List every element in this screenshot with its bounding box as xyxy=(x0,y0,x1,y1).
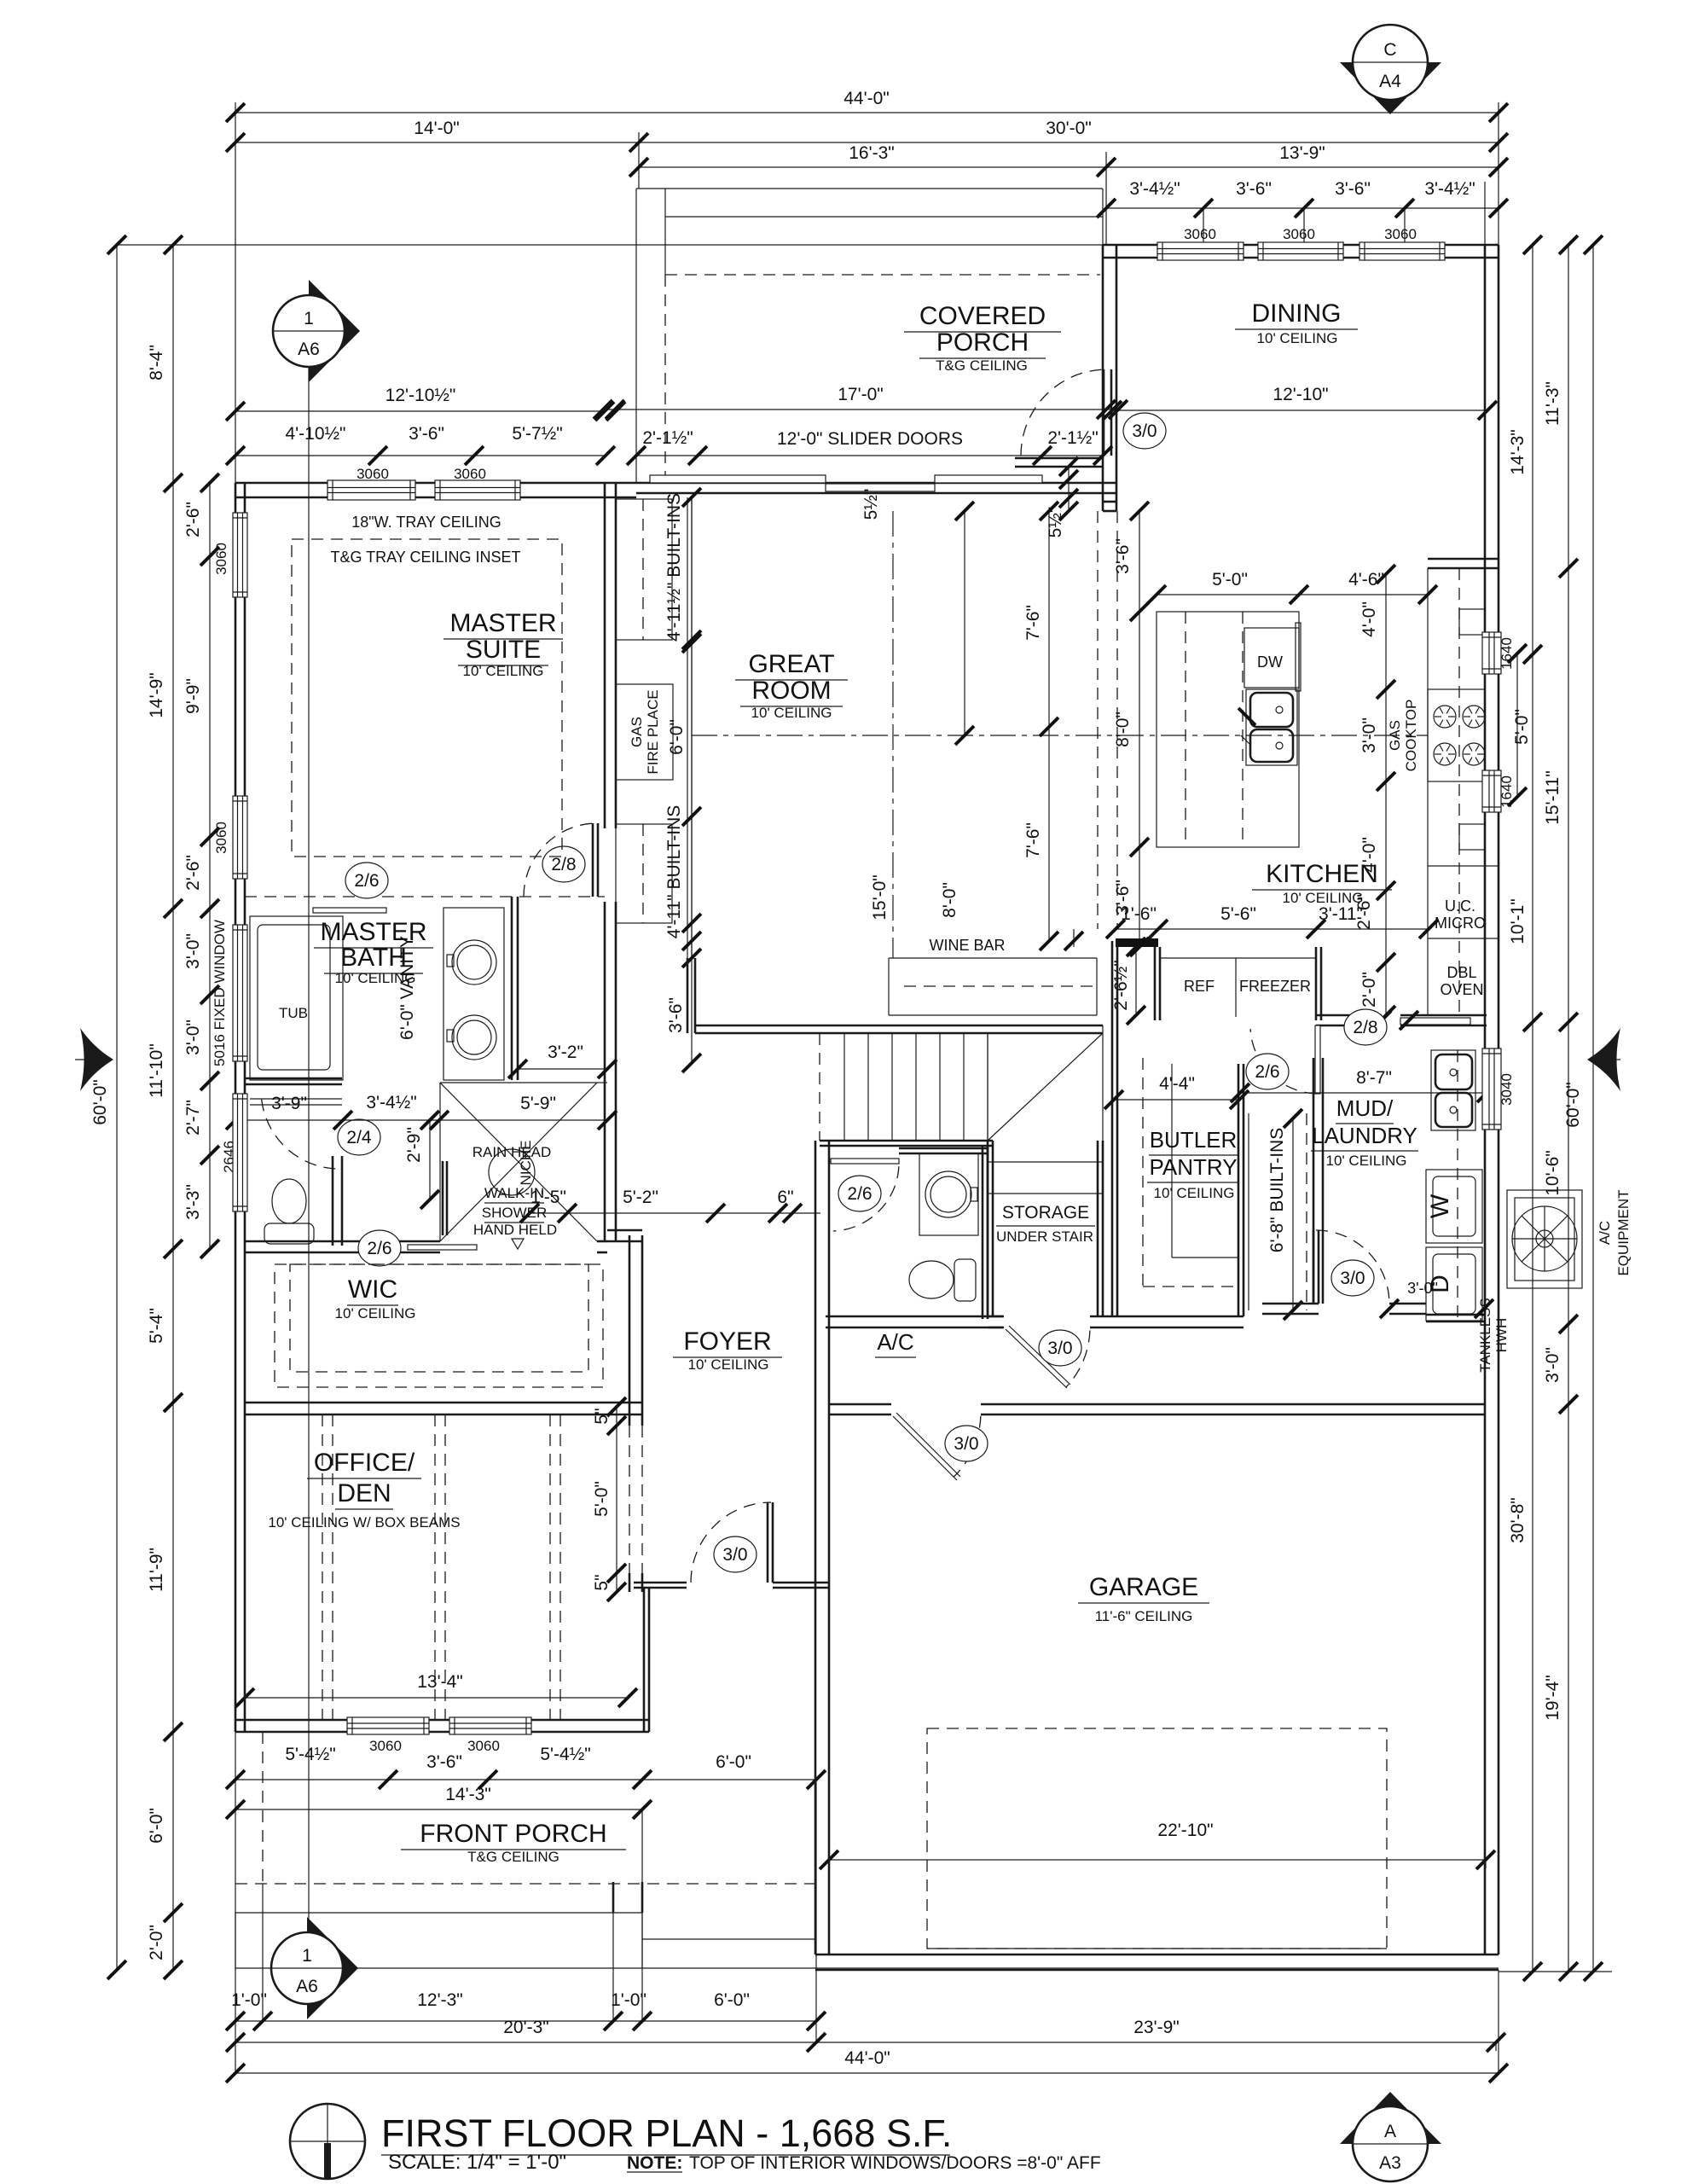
svg-text:14'-3": 14'-3" xyxy=(1508,429,1528,475)
svg-text:2'-1½": 2'-1½" xyxy=(1047,428,1098,448)
window 1640 upper xyxy=(1482,632,1501,674)
dishwasher xyxy=(1244,628,1299,688)
wall below wine bar xyxy=(687,958,695,1033)
door tag 3/0 entry xyxy=(714,1536,757,1572)
section marker 1/A6 bottom xyxy=(307,1917,358,2019)
svg-text:A6: A6 xyxy=(296,1977,318,1996)
built-ins upper xyxy=(616,499,672,640)
covered porch edge lines xyxy=(635,189,637,483)
svg-text:GAS: GAS xyxy=(629,717,645,747)
svg-text:3'-4½": 3'-4½" xyxy=(366,1093,416,1112)
svg-text:7'-6": 7'-6" xyxy=(1023,605,1043,641)
built-ins 6-8 xyxy=(1248,1113,1249,1310)
svg-text:T&G TRAY CEILING INSET: T&G TRAY CEILING INSET xyxy=(330,549,520,566)
walk-in shower xyxy=(440,1083,597,1241)
foyer east / garage west upper wall xyxy=(815,1141,829,1404)
wall under porch door xyxy=(1015,458,1103,467)
svg-text:3060: 3060 xyxy=(369,1738,402,1754)
svg-text:HWH: HWH xyxy=(1493,1318,1510,1353)
svg-text:U.C.: U.C. xyxy=(1445,897,1475,915)
svg-text:SUITE: SUITE xyxy=(466,636,541,664)
mud sink xyxy=(1431,1050,1475,1130)
svg-text:NOTE:: NOTE: xyxy=(627,2153,682,2173)
svg-text:14'-9": 14'-9" xyxy=(147,672,166,718)
svg-text:3060: 3060 xyxy=(454,466,486,482)
svg-text:2/6: 2/6 xyxy=(354,871,379,891)
svg-text:ROOM: ROOM xyxy=(751,677,831,705)
svg-text:1'-0": 1'-0" xyxy=(611,1990,646,2010)
wine bar counter xyxy=(889,957,1097,959)
svg-text:3'-6": 3'-6" xyxy=(409,424,444,444)
svg-text:5'-7½": 5'-7½" xyxy=(512,424,562,444)
svg-text:DEN: DEN xyxy=(337,1479,391,1507)
door tag 2/6 powder xyxy=(838,1176,881,1211)
gas fireplace xyxy=(616,684,673,780)
svg-text:4'-10½": 4'-10½" xyxy=(285,424,345,444)
garage north wall east part xyxy=(981,1404,1485,1414)
svg-text:UNDER STAIR: UNDER STAIR xyxy=(996,1228,1093,1245)
porch dims xyxy=(594,400,1128,419)
porch roof dashed line xyxy=(665,274,1100,276)
svg-text:30'-0": 30'-0" xyxy=(1046,119,1092,138)
svg-text:6'-8" BUILT-INS: 6'-8" BUILT-INS xyxy=(1267,1128,1287,1252)
svg-text:6'-0": 6'-0" xyxy=(147,1808,166,1844)
svg-text:PANTRY: PANTRY xyxy=(1149,1154,1237,1180)
svg-text:COVERED: COVERED xyxy=(919,302,1046,330)
pantry xyxy=(1112,941,1117,1316)
svg-text:1'-6": 1'-6" xyxy=(1121,904,1157,924)
svg-text:14'-3": 14'-3" xyxy=(445,1785,491,1804)
svg-text:4'-11" BUILT-INS: 4'-11" BUILT-INS xyxy=(664,805,684,939)
master suite top dims xyxy=(226,402,614,421)
svg-text:2'-6": 2'-6" xyxy=(183,502,203,537)
svg-text:5'-9": 5'-9" xyxy=(520,1094,556,1113)
tray ceiling xyxy=(292,539,562,857)
powder door 2/6 xyxy=(831,1159,899,1164)
svg-text:LAUNDRY: LAUNDRY xyxy=(1312,1123,1417,1148)
svg-text:RAIN HEAD: RAIN HEAD xyxy=(472,1144,552,1160)
kitchen east vertical dims xyxy=(1377,565,1395,1025)
svg-text:2/8: 2/8 xyxy=(1353,1018,1377,1037)
WIC dashed shelving xyxy=(275,1264,603,1387)
svg-text:3'-0": 3'-0" xyxy=(183,933,203,969)
svg-text:3060: 3060 xyxy=(357,466,389,482)
stair top wall xyxy=(695,1025,1103,1033)
svg-text:A/C: A/C xyxy=(877,1329,913,1355)
stair landing xyxy=(987,1033,988,1141)
svg-text:FIRST FLOOR PLAN - 1,668 S.F.: FIRST FLOOR PLAN - 1,668 S.F. xyxy=(381,2111,952,2155)
master suite 2/8 door xyxy=(593,823,598,897)
bath dims xyxy=(226,1111,617,1130)
svg-text:TOP OF INTERIOR WINDOWS/DOORS: TOP OF INTERIOR WINDOWS/DOORS =8'-0" AFF xyxy=(689,2153,1101,2173)
svg-text:1'-0": 1'-0" xyxy=(231,1990,267,2010)
entry vestibule walls xyxy=(644,1588,649,1732)
svg-text:13'-9": 13'-9" xyxy=(1279,143,1325,163)
door tag 2/4 toilet xyxy=(338,1119,380,1155)
svg-text:3'-6": 3'-6" xyxy=(1113,538,1133,574)
svg-text:3'-11": 3'-11" xyxy=(1319,904,1363,924)
svg-text:3'-6": 3'-6" xyxy=(426,1752,462,1772)
svg-text:13'-4": 13'-4" xyxy=(417,1672,463,1692)
svg-text:3'-0": 3'-0" xyxy=(1407,1280,1438,1297)
door tag 2/8 master suite xyxy=(542,846,585,882)
svg-text:T&G CEILING: T&G CEILING xyxy=(936,357,1028,374)
svg-text:SCALE: 1/4" = 1'-0": SCALE: 1/4" = 1'-0" xyxy=(388,2151,566,2174)
svg-text:10' CEILING: 10' CEILING xyxy=(463,663,544,679)
svg-text:6'-0": 6'-0" xyxy=(667,719,687,755)
svg-text:11'-9": 11'-9" xyxy=(147,1548,166,1592)
svg-text:A: A xyxy=(1384,2122,1396,2141)
svg-text:10' CEILING: 10' CEILING xyxy=(335,1305,416,1321)
svg-text:30'-8": 30'-8" xyxy=(1508,1497,1528,1543)
svg-text:3'-3": 3'-3" xyxy=(183,1184,203,1220)
svg-text:3'-6": 3'-6" xyxy=(1236,179,1272,199)
toilet room xyxy=(245,1078,342,1084)
built-ins lower xyxy=(616,824,672,923)
porch pillar wall xyxy=(613,1882,642,1913)
mud hall dims xyxy=(1104,1090,1249,1109)
master suite east wall xyxy=(605,483,616,828)
micro / oven cabinets xyxy=(1428,865,1499,867)
svg-text:2'-0": 2'-0" xyxy=(147,1925,166,1960)
wall right of vanity xyxy=(512,897,518,1080)
front porch slab xyxy=(235,1883,815,1885)
WIC/office wall xyxy=(245,1403,642,1414)
svg-text:8'-0": 8'-0" xyxy=(940,882,959,918)
svg-text:FIRE PLACE: FIRE PLACE xyxy=(645,689,661,774)
svg-text:5'-2": 5'-2" xyxy=(623,1188,658,1207)
svg-text:3'-0": 3'-0" xyxy=(183,1019,203,1055)
stairs xyxy=(819,1033,820,1141)
door tag 3/0 mud xyxy=(1331,1260,1374,1296)
svg-text:3/0: 3/0 xyxy=(1132,421,1157,441)
svg-text:10'-6": 10'-6" xyxy=(1543,1150,1562,1196)
kitchen south wall + ref/freezer xyxy=(1116,938,1158,947)
door tag 3/0 storage xyxy=(1039,1330,1081,1366)
section arrow right xyxy=(1587,1028,1620,1091)
svg-text:60'-0": 60'-0" xyxy=(1563,1082,1583,1128)
svg-text:3060: 3060 xyxy=(213,822,229,854)
svg-text:4'-0": 4'-0" xyxy=(1359,601,1379,637)
svg-text:15'-11": 15'-11" xyxy=(1543,770,1562,825)
svg-text:3060: 3060 xyxy=(1283,226,1315,242)
svg-text:OFFICE/: OFFICE/ xyxy=(314,1449,415,1477)
top dimension lines xyxy=(235,102,236,483)
corridor-garage door 3/0 xyxy=(893,1416,957,1480)
svg-text:3'-6": 3'-6" xyxy=(666,997,686,1033)
storage door 3/0 xyxy=(1006,1329,1067,1388)
door tag 2/8 kitchen hall xyxy=(1344,1009,1387,1045)
gas cooktop xyxy=(1428,689,1485,781)
svg-text:3'-0": 3'-0" xyxy=(1543,1347,1562,1383)
svg-text:10' CEILING: 10' CEILING xyxy=(1257,330,1338,346)
svg-text:4'-4": 4'-4" xyxy=(1159,1074,1195,1094)
island dims xyxy=(1147,585,1437,604)
svg-text:DINING: DINING xyxy=(1252,299,1342,328)
svg-text:GAS: GAS xyxy=(1387,720,1403,751)
garage north wall west part xyxy=(829,1404,891,1414)
svg-text:A3: A3 xyxy=(1379,2153,1401,2173)
svg-text:MASTER: MASTER xyxy=(449,609,556,637)
svg-text:8'-0": 8'-0" xyxy=(1113,712,1133,747)
svg-text:5'-0": 5'-0" xyxy=(1212,570,1248,590)
mud south wall + 3/0 door xyxy=(1262,1304,1319,1314)
svg-text:44'-0": 44'-0" xyxy=(844,2048,890,2068)
WIC door 2/6 leaf xyxy=(408,1245,477,1250)
svg-text:3'-2": 3'-2" xyxy=(548,1043,583,1062)
svg-text:1: 1 xyxy=(302,1946,312,1966)
great room west wall face xyxy=(687,497,688,958)
island sink xyxy=(1246,689,1297,765)
window 3040 mud xyxy=(1482,1048,1501,1130)
svg-text:TUB: TUB xyxy=(279,1005,308,1021)
svg-text:WIC: WIC xyxy=(348,1275,397,1304)
svg-text:OVEN: OVEN xyxy=(1440,981,1483,998)
svg-text:6'-0" VANITY: 6'-0" VANITY xyxy=(397,936,417,1040)
svg-text:18"W. TRAY CEILING: 18"W. TRAY CEILING xyxy=(351,514,501,531)
svg-text:19'-4": 19'-4" xyxy=(1543,1675,1562,1721)
garage door dashed driveway xyxy=(927,1728,1387,1949)
svg-text:3/0: 3/0 xyxy=(1340,1269,1365,1288)
section cut line A6 xyxy=(308,367,310,1932)
svg-text:23'-9": 23'-9" xyxy=(1133,2018,1180,2037)
powder room xyxy=(899,1148,988,1153)
svg-text:GARAGE: GARAGE xyxy=(1089,1573,1198,1601)
svg-text:22'-10": 22'-10" xyxy=(1157,1821,1213,1840)
master north windows 3060 xyxy=(328,480,415,500)
wall between bath and WIC xyxy=(245,1241,440,1252)
svg-text:11'-3": 11'-3" xyxy=(1543,381,1562,426)
office south windows 3060 xyxy=(347,1717,429,1734)
svg-text:3/0: 3/0 xyxy=(1047,1339,1072,1358)
svg-text:DBL: DBL xyxy=(1446,964,1476,981)
svg-text:2'-7": 2'-7" xyxy=(183,1100,203,1136)
master bath north wall dashed opening xyxy=(245,896,605,897)
svg-text:5'-4½": 5'-4½" xyxy=(540,1745,590,1764)
svg-text:6'-0": 6'-0" xyxy=(716,1752,751,1772)
svg-text:10' CEILING: 10' CEILING xyxy=(1154,1185,1235,1201)
svg-text:16'-3": 16'-3" xyxy=(849,143,895,163)
garage west wall xyxy=(815,1404,829,1955)
svg-text:3'-4½": 3'-4½" xyxy=(1424,179,1475,199)
svg-text:2/6: 2/6 xyxy=(1255,1062,1279,1082)
svg-text:GREAT: GREAT xyxy=(748,650,834,678)
svg-text:3'-6": 3'-6" xyxy=(1335,179,1371,199)
svg-text:10' CEILING: 10' CEILING xyxy=(688,1356,769,1373)
svg-text:5'-0": 5'-0" xyxy=(592,1481,612,1517)
powder toilet xyxy=(909,1261,954,1298)
svg-text:20'-3": 20'-3" xyxy=(503,2018,549,2037)
washer dryer xyxy=(1426,1170,1482,1243)
svg-text:WINE BAR: WINE BAR xyxy=(929,937,1005,954)
svg-text:W: W xyxy=(1426,1194,1454,1218)
slider door panels xyxy=(650,475,826,483)
dining-kitchen south jog wall xyxy=(1103,502,1116,511)
svg-text:STORAGE: STORAGE xyxy=(1002,1203,1089,1223)
kitchen east counter xyxy=(1428,559,1499,568)
exterior wall: west (master suite/office) xyxy=(235,483,245,1732)
svg-text:17'-0": 17'-0" xyxy=(838,385,884,404)
svg-text:KITCHEN: KITCHEN xyxy=(1266,860,1378,888)
svg-text:2'-1½": 2'-1½" xyxy=(642,428,693,448)
svg-text:10'-1": 10'-1" xyxy=(1508,898,1528,944)
svg-text:EQUIPMENT: EQUIPMENT xyxy=(1615,1189,1632,1275)
svg-text:REF: REF xyxy=(1184,978,1215,995)
porch-dining door 3/0 leaf xyxy=(1104,369,1111,456)
svg-text:2/4: 2/4 xyxy=(346,1128,372,1147)
svg-text:3'-0": 3'-0" xyxy=(1359,717,1379,753)
storage xyxy=(988,1161,1103,1163)
door tag 3/0 porch xyxy=(1123,413,1166,449)
svg-text:5½": 5½" xyxy=(1046,507,1065,538)
stair south wall xyxy=(820,1141,993,1146)
svg-text:2'-6½": 2'-6½" xyxy=(1111,960,1131,1010)
window 1640 lower xyxy=(1482,770,1501,812)
west wall windows xyxy=(233,513,247,597)
dining room walls xyxy=(1103,245,1499,258)
svg-text:11'-6" CEILING: 11'-6" CEILING xyxy=(1095,1608,1193,1624)
section marker A/A3 bottom xyxy=(1340,2092,1441,2144)
svg-text:NICHE: NICHE xyxy=(518,1141,534,1186)
svg-text:A4: A4 xyxy=(1379,72,1401,91)
powder sink xyxy=(919,1153,978,1235)
svg-text:12'-0" SLIDER DOORS: 12'-0" SLIDER DOORS xyxy=(777,429,963,449)
kitchen south wall east part xyxy=(1316,1015,1382,1025)
svg-text:T&G CEILING: T&G CEILING xyxy=(467,1849,559,1865)
svg-text:2'-9": 2'-9" xyxy=(404,1127,424,1163)
svg-text:5": 5" xyxy=(592,1574,612,1590)
svg-text:1'-5": 1'-5" xyxy=(530,1188,566,1207)
office south wall xyxy=(235,1720,649,1732)
svg-text:2/6: 2/6 xyxy=(367,1239,391,1258)
door tag 2/6 WIC xyxy=(358,1230,401,1266)
office east wall with opening xyxy=(629,1426,630,1573)
svg-text:2'-6": 2'-6" xyxy=(183,855,203,891)
A/C equipment pad xyxy=(1507,1190,1582,1288)
svg-text:HAND HELD: HAND HELD xyxy=(473,1222,557,1238)
door tag 3/0 garage entry xyxy=(945,1426,988,1461)
svg-text:FRONT PORCH: FRONT PORCH xyxy=(420,1820,606,1848)
master bath 2/6 pocket door leaf xyxy=(313,908,386,913)
svg-text:60'-0": 60'-0" xyxy=(90,1079,110,1125)
section arrow left xyxy=(80,1028,113,1091)
section marker 1/A6 top xyxy=(309,280,360,382)
svg-text:3060: 3060 xyxy=(467,1738,500,1754)
svg-text:8'-7": 8'-7" xyxy=(1356,1068,1392,1088)
bottom dimension lines xyxy=(235,1732,236,2073)
svg-text:COOKTOP: COOKTOP xyxy=(1403,700,1419,772)
svg-text:15'-0": 15'-0" xyxy=(870,874,890,921)
svg-text:PORCH: PORCH xyxy=(936,328,1029,357)
svg-text:6'-0": 6'-0" xyxy=(714,1990,750,2010)
svg-text:3'-9": 3'-9" xyxy=(271,1094,307,1113)
svg-text:12'-3": 12'-3" xyxy=(417,1990,463,2010)
svg-text:10' CEILING: 10' CEILING xyxy=(1326,1153,1407,1169)
svg-text:12'-10": 12'-10" xyxy=(1272,385,1328,404)
svg-text:3060: 3060 xyxy=(213,543,229,575)
svg-text:3/0: 3/0 xyxy=(954,1434,978,1454)
svg-text:11'-10": 11'-10" xyxy=(147,1043,166,1098)
svg-text:3/0: 3/0 xyxy=(722,1545,747,1565)
svg-text:9'-9": 9'-9" xyxy=(183,678,203,714)
door tag 2/6 master bath xyxy=(345,863,388,898)
left dimension column xyxy=(116,245,118,1970)
svg-text:5": 5" xyxy=(592,1408,612,1424)
svg-text:6": 6" xyxy=(777,1188,793,1207)
svg-text:4'-11½" BUILT-INS: 4'-11½" BUILT-INS xyxy=(664,493,684,642)
svg-text:3060: 3060 xyxy=(1384,226,1417,242)
svg-text:7'-6": 7'-6" xyxy=(1023,822,1043,858)
svg-text:MICRO: MICRO xyxy=(1435,915,1486,932)
svg-text:8'-4": 8'-4" xyxy=(147,345,166,380)
svg-text:MUD/: MUD/ xyxy=(1336,1095,1394,1121)
svg-text:FREEZER: FREEZER xyxy=(1239,978,1311,995)
svg-text:A/C: A/C xyxy=(1597,1221,1613,1245)
svg-text:5'-4½": 5'-4½" xyxy=(285,1745,335,1764)
svg-text:10' CEILING: 10' CEILING xyxy=(751,705,832,721)
right dimension column xyxy=(1532,245,1533,1972)
svg-text:12'-10½": 12'-10½" xyxy=(386,386,456,405)
door tag 2/6 mud xyxy=(1246,1054,1289,1089)
hall: foyer west wall xyxy=(629,1235,642,1426)
garage door recess xyxy=(927,1948,1387,1949)
svg-text:A6: A6 xyxy=(298,340,320,359)
porch east wall xyxy=(1102,189,1104,245)
svg-text:1: 1 xyxy=(304,309,314,328)
exterior wall: north of master suite & great room xyxy=(235,483,636,497)
kitchen island xyxy=(1157,612,1299,847)
centerlines xyxy=(692,735,1428,736)
dining north windows 3060 xyxy=(1157,242,1244,260)
svg-text:5016 FIXED WINDOW: 5016 FIXED WINDOW xyxy=(212,920,228,1066)
svg-text:3'-4½": 3'-4½" xyxy=(1129,179,1180,199)
garage south wall xyxy=(815,1955,1499,1970)
svg-text:2/6: 2/6 xyxy=(847,1184,872,1204)
svg-text:14'-0": 14'-0" xyxy=(414,119,460,138)
svg-text:2'-0": 2'-0" xyxy=(1359,972,1379,1008)
svg-text:10' CEILING W/ BOX BEAMS: 10' CEILING W/ BOX BEAMS xyxy=(268,1514,460,1531)
hall dims xyxy=(520,1204,820,1223)
svg-text:3060: 3060 xyxy=(1184,226,1216,242)
vanity xyxy=(443,908,504,1080)
svg-text:44'-0": 44'-0" xyxy=(843,89,890,108)
svg-text:2/8: 2/8 xyxy=(551,855,576,874)
section marker C/A4 top xyxy=(1340,62,1441,114)
north arrow xyxy=(290,2104,365,2179)
mud west wall + 2/6 door xyxy=(1313,1058,1323,1304)
svg-text:5'-0": 5'-0" xyxy=(1512,709,1532,745)
svg-text:5½": 5½" xyxy=(861,489,881,520)
svg-text:DW: DW xyxy=(1257,653,1283,671)
svg-text:5'-4": 5'-4" xyxy=(147,1308,166,1344)
front door 3/0 leaf xyxy=(768,1502,773,1583)
tub xyxy=(250,916,343,1080)
svg-text:5'-6": 5'-6" xyxy=(1220,904,1256,924)
svg-text:BUTLER: BUTLER xyxy=(1150,1127,1238,1153)
svg-text:FOYER: FOYER xyxy=(683,1327,771,1356)
kitchen-great room opening dashed xyxy=(1097,511,1099,929)
built-ins dims xyxy=(682,488,701,1072)
toilet xyxy=(272,1179,306,1223)
svg-text:TANKLESS: TANKLESS xyxy=(1477,1298,1493,1373)
svg-text:C: C xyxy=(1383,40,1396,60)
